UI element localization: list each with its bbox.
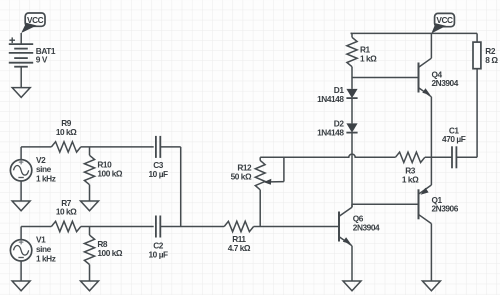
svg-text:1 kHz: 1 kHz — [36, 174, 56, 184]
svg-text:2N3904: 2N3904 — [432, 78, 459, 88]
svg-text:1N4148: 1N4148 — [317, 94, 344, 104]
svg-text:2N3904: 2N3904 — [353, 222, 380, 232]
svg-text:10 kΩ: 10 kΩ — [56, 207, 77, 217]
svg-text:1 kΩ: 1 kΩ — [360, 53, 377, 63]
svg-text:8 Ω: 8 Ω — [485, 55, 498, 65]
svg-text:1N4148: 1N4148 — [317, 127, 344, 137]
svg-text:9 V: 9 V — [36, 55, 48, 65]
svg-text:1 kΩ: 1 kΩ — [402, 174, 419, 184]
svg-text:470 µF: 470 µF — [442, 134, 466, 144]
svg-text:100 kΩ: 100 kΩ — [97, 169, 123, 179]
svg-text:VCC: VCC — [436, 15, 453, 25]
svg-text:50 kΩ: 50 kΩ — [231, 172, 252, 182]
svg-text:4.7 kΩ: 4.7 kΩ — [228, 243, 251, 253]
svg-text:10 kΩ: 10 kΩ — [56, 127, 77, 137]
svg-text:100 kΩ: 100 kΩ — [97, 248, 123, 258]
svg-text:10 µF: 10 µF — [149, 169, 169, 179]
svg-text:VCC: VCC — [27, 15, 44, 25]
svg-text:2N3906: 2N3906 — [432, 204, 459, 214]
svg-text:1 kHz: 1 kHz — [36, 253, 56, 263]
svg-text:10 µF: 10 µF — [149, 249, 169, 259]
